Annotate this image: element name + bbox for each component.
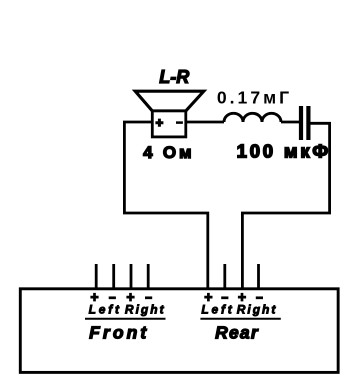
- rear left plus label: [204, 293, 212, 302]
- terminal rear left minus: [223, 264, 226, 288]
- svg-text:Rear: Rear: [215, 322, 259, 342]
- terminal front left plus: [95, 264, 98, 288]
- front left minus label: [109, 296, 116, 299]
- amplifier terminal box: [20, 289, 338, 373]
- svg-text:Left: Left: [89, 303, 122, 317]
- terminal front right plus: [130, 264, 133, 288]
- front right minus label: [145, 296, 152, 299]
- svg-text:Left: Left: [201, 303, 234, 317]
- svg-text:4 Ом: 4 Ом: [143, 143, 194, 162]
- svg-text:100 мкФ: 100 мкФ: [237, 141, 331, 162]
- front right plus label: [126, 293, 134, 302]
- wire capacitor to rear-right-plus: [242, 123, 329, 288]
- svg-text:Right: Right: [125, 303, 166, 317]
- rear left minus label: [221, 296, 228, 299]
- wire inductor to capacitor: [281, 121, 299, 124]
- loudspeaker LS1 body: [152, 111, 186, 137]
- rear group underline: [200, 318, 280, 320]
- inductor L1: [224, 113, 281, 122]
- wire speaker plus to rear-left-plus: [124, 122, 207, 288]
- rear right plus label: [238, 293, 246, 302]
- front left plus label: [90, 293, 98, 302]
- svg-text:0.17мГ: 0.17мГ: [217, 88, 292, 108]
- terminal front right minus: [147, 264, 150, 288]
- loudspeaker LS1 plus terminal mark: [155, 119, 163, 127]
- rear right minus label: [256, 296, 263, 299]
- loudspeaker LS1 minus terminal mark: [176, 121, 183, 124]
- svg-text:Front: Front: [89, 322, 149, 342]
- loudspeaker LS1 cone: [135, 91, 204, 111]
- svg-text:Right: Right: [237, 303, 278, 317]
- capacitor C1 left plate: [299, 106, 303, 140]
- svg-text:L-R: L-R: [159, 67, 189, 87]
- capacitor C1 right plate: [306, 106, 310, 140]
- terminal rear right minus: [257, 264, 260, 288]
- wire speaker minus to inductor: [186, 121, 224, 124]
- front group underline: [85, 318, 166, 320]
- terminal front left minus: [112, 264, 115, 288]
